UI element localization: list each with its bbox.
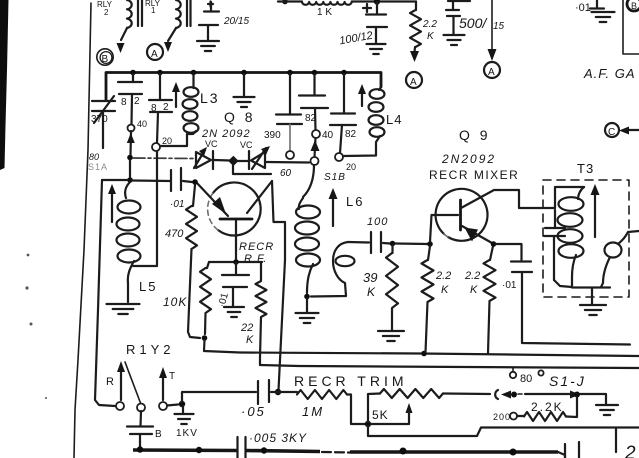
relay RLY2 core [138,0,142,26]
wire B2 to .01 cap [132,179,170,182]
node bus dots [261,447,267,453]
svg-text:20: 20 [346,162,356,172]
wire 390 to contact 60 [289,124,291,150]
L4 tuning arrow [361,92,363,106]
svg-text:80: 80 [520,373,532,385]
scan edge bar left [0,0,9,170]
bus end lead 1 [558,452,565,458]
resistor 2.2K S1J [517,415,524,417]
varactor VC2 [236,160,248,162]
wire diamond to collector node [233,165,271,174]
svg-text:370: 370 [91,114,108,125]
S1A wiper arrow [129,131,132,155]
L3 tuning arrow [175,90,177,107]
S1B wiper arrow [315,138,316,157]
svg-text:2: 2 [163,102,169,113]
svg-text:L6: L6 [346,194,364,209]
T3 bottom wire [572,286,610,288]
inductor L4 [379,87,381,90]
R1Y2 wiper terminal [137,404,145,412]
svg-text:A: A [410,77,417,88]
wire base line [209,261,262,263]
Q8 base bar [220,218,252,221]
wire B+ to node A right [491,0,493,49]
S1B contact 40 [312,130,320,138]
trimmer contact 40 [128,125,135,132]
wire 5K junction down [368,426,639,436]
R1Y2 wiper blade [125,362,141,403]
svg-text:2N2092: 2N2092 [441,152,496,166]
capacitor 20/15 [199,2,219,41]
wire into node C [627,129,639,131]
capacitor .01 Q8 bypass [222,263,249,306]
svg-text:500/: 500/ [459,15,488,31]
node T junction [179,401,185,407]
wire B2 left [102,179,128,181]
supply bus rail [106,73,381,101]
S1B contact 20 [335,153,343,161]
wire S1B wiper to L6 [303,165,314,197]
S1J wiper wire [518,393,524,395]
capacitor .01 Q8 input [171,168,192,191]
wire rail y366 [260,365,639,368]
node A circled right [484,62,500,78]
relay RLY1 coil [176,0,181,28]
svg-text:K: K [246,334,254,346]
ground for 100/12 [367,44,386,54]
wire 39K to base node [395,242,428,245]
svg-text:B: B [155,429,162,440]
svg-text:20/15: 20/15 [223,16,249,27]
ground for 20/15 cap [197,41,219,51]
wire left edge long [74,3,91,458]
paper specks [25,254,47,399]
capacitor .01 Q9 [511,262,532,342]
svg-text:15: 15 [493,21,505,32]
bus ground stem [243,74,245,96]
svg-text:2: 2 [104,8,109,17]
resistor 10K [200,262,211,334]
svg-text:Q 8: Q 8 [224,109,256,125]
capacitor 82 third [299,74,328,130]
ground for .01 AF [592,12,615,22]
svg-text:10K: 10K [163,295,187,309]
wire T to junction [167,405,178,406]
relay RLY1 core [187,0,191,26]
svg-text:60: 60 [280,168,292,179]
L6 tuning arrow [332,196,334,226]
S1J contact 200 [510,413,517,420]
pot 5K RECR TRIM [368,394,380,423]
svg-text:VC: VC [205,139,218,149]
node junction top [282,0,288,4]
capacitor 500/15 [446,1,470,34]
svg-text:2: 2 [624,443,636,458]
varactor VC1 [194,150,213,169]
Q9 base bar [459,200,462,230]
svg-text:22: 22 [240,322,253,334]
svg-text:40: 40 [322,130,334,141]
S1B contact 60 [286,151,294,159]
ground for T3 [580,305,606,315]
node 5K junction [365,421,371,427]
Q8 collector feedback wire [272,181,285,390]
svg-text:39: 39 [363,270,377,285]
inductor 1K choke [278,2,377,5]
wire base node up [430,215,458,242]
svg-text:80: 80 [89,152,99,162]
S1J wiper contact arc [495,390,498,399]
svg-text:82: 82 [345,129,357,140]
node C emitter junction [192,179,198,185]
T junction ground stem [182,406,184,413]
svg-text:2.2K: 2.2K [531,400,564,414]
T3 padder capacitor [544,210,572,287]
svg-text:2.2: 2.2 [435,270,451,282]
Q9 emitter lead [462,226,492,243]
node B circled [97,49,113,65]
svg-text:·01: ·01 [170,199,184,210]
R1Y2 contact R arrow [120,370,122,400]
bottom bus mid [246,451,321,452]
wire 2.2K to dot [566,397,577,417]
wire .05 to 1M [271,391,297,393]
T3 tuning arrow [594,192,596,237]
ground for S1J [596,405,618,415]
svg-text:B: B [631,1,637,11]
svg-text:·05: ·05 [241,404,266,419]
svg-text:RECR: RECR [239,241,274,253]
Q8 base lead [235,220,237,260]
svg-text:R1Y2: R1Y2 [126,342,175,357]
ground for T junction [175,414,194,424]
wire rail y353 [240,353,639,357]
svg-text:R: R [106,376,114,388]
R1Y2 contact R terminal [116,402,124,410]
inductor L3 [192,74,194,88]
Q8 emitter lead [196,182,228,216]
svg-text:L4: L4 [386,112,402,127]
svg-text:·005 3KY: ·005 3KY [249,431,307,445]
capacitor 82 fourth [330,74,356,153]
wire wiper to B2 [129,160,131,177]
circled node top right [627,0,639,11]
node junction cap 100/12 [374,0,380,5]
L5 tuning arrow [111,193,113,222]
svg-text:·01: ·01 [502,280,517,291]
svg-text:20: 20 [162,136,172,146]
resistor 2.2K Q9 emitter [484,246,496,353]
ground for 500/15 [444,35,465,45]
transistor Q9 circle [436,189,488,241]
T3 dashed box [543,180,629,297]
svg-text:1: 1 [151,6,156,15]
node base junction [233,259,239,265]
wire L5 left rail to relay switch [95,180,115,406]
svg-text:40: 40 [137,119,147,129]
node B2 junction [127,177,133,183]
S1J right arrow [570,391,580,399]
wire 1M elbow [347,395,365,425]
capacitor 100/12 electrolytic [363,2,387,43]
series capacitor .005 3KV [238,437,246,458]
node S1A wiper [127,155,133,161]
S1B wiper contact [311,157,319,165]
resistor 470 [186,185,197,249]
wire node D down [204,340,240,353]
node 39K junction [390,241,396,247]
inductor L5 [125,182,130,198]
node rail junction 2.2K [421,351,427,357]
svg-text:1M: 1M [302,404,324,419]
S1A contact 20 [152,143,160,151]
resistor 2.2K feed [410,2,421,48]
svg-text:L3: L3 [200,90,220,106]
transistor Q8 circle [213,182,261,235]
varactor junction diamond [228,156,238,166]
bus end lead 3 [615,429,617,452]
T3 ground stem [591,288,593,304]
capacitor .05 [258,380,269,404]
svg-text:A.F. GA: A.F. GA [583,66,636,81]
AF gain box corner [623,0,639,54]
node A circled [147,44,163,60]
svg-text:K: K [367,285,376,299]
S1J wire to ground [580,394,606,404]
svg-text:A: A [488,67,495,78]
relay RLY2 coil [127,0,132,28]
label 100/12 [338,30,373,48]
T3 primary rail [555,187,584,208]
wire emitter to .01 [496,244,522,260]
S1J wiper arrow [501,391,511,399]
wire .01 to right [522,341,630,345]
svg-text:Q 9: Q 9 [459,127,491,143]
wire arrow to node A mid [413,47,416,52]
node L6 ground junction [304,294,310,300]
wire VC1 to junction [214,159,230,162]
svg-text:200: 200 [493,412,511,422]
svg-text:82: 82 [305,113,317,124]
capacitor 82 second [149,74,172,143]
bus ground symbol [234,97,255,107]
ground for L6 [296,313,319,323]
node .05 junction [275,389,281,395]
svg-text:S1B: S1B [324,172,346,183]
svg-text:K: K [470,284,478,296]
Q8 collector lead [247,181,272,213]
svg-text:VC: VC [240,140,253,150]
svg-text:R.F.: R.F. [244,253,267,265]
wire RLY2 to node B [121,28,127,40]
L6 secondary loop [311,242,348,297]
inductor L6 [295,206,320,267]
svg-text:RECR TRIM: RECR TRIM [294,373,408,389]
R1Y2 contact T arrow [162,378,164,400]
L6 ground stem [306,298,308,312]
capacitor B 1KV [127,411,153,448]
svg-text:470: 470 [165,228,184,240]
wire VC2 to S1B wiper [266,161,309,164]
wire contact20 to L4 [343,150,376,156]
T3 primary coil [558,197,584,258]
Q9 collector lead [461,190,555,208]
ground for 39K [378,331,404,341]
svg-text:S1-J: S1-J [549,373,586,389]
resistor 22K [256,263,267,365]
svg-text:S1A: S1A [88,162,108,172]
wire S1A to varactors [133,157,194,160]
pot 5K wiper [406,403,413,413]
svg-text:100: 100 [367,216,388,228]
ground for .01 bypass [224,307,244,317]
wire contact20 to L3 [160,134,192,146]
node Q9 base junction [427,241,433,247]
svg-text:1 K: 1 K [317,7,332,18]
svg-text:T3: T3 [577,161,594,176]
svg-text:T: T [169,371,175,382]
wire secondary to cap100 [348,241,369,244]
svg-text:K: K [441,284,449,296]
svg-text:·01: ·01 [575,2,591,14]
wire top rail to 2.2K [380,0,416,2]
wire T junction up [182,392,256,402]
bus junction dots [130,70,136,76]
wire RLY1 to node A [168,28,176,41]
capacitor 370 variable [92,96,115,148]
svg-text:K: K [427,31,435,42]
node C circled [605,123,619,137]
capacitor 100 [371,232,390,253]
resistor 2.2K Q9 base [422,246,434,352]
node Q9 emitter junction [491,241,497,247]
wire 470 to node D [188,249,200,338]
svg-text:2.2: 2.2 [464,270,480,282]
svg-text:390: 390 [264,130,281,141]
S1J contact 80 [510,372,516,378]
svg-text:5K: 5K [372,408,389,422]
capacitor 390 [276,74,302,124]
L5 tap wire [133,151,157,266]
T3 secondary loop [605,243,622,258]
svg-text:C: C [608,127,615,138]
bottom bus left [133,448,237,452]
R1Y2 contact T terminal [159,402,167,410]
svg-text:A: A [151,49,158,60]
svg-text:2.2: 2.2 [422,19,437,30]
svg-text:8: 8 [151,103,157,114]
svg-text:2: 2 [134,96,140,107]
svg-text:RECR MIXER: RECR MIXER [429,168,519,182]
node D junction [202,335,208,341]
bus end lead 2 [578,442,580,458]
svg-text:1KV: 1KV [176,428,198,439]
resistor 39K [386,245,398,330]
label .01 bypass [217,291,231,308]
resistor 1M [297,390,347,399]
node A circled mid [406,72,422,88]
svg-text:8: 8 [121,97,127,108]
capacitor 82 first [118,74,142,124]
node bus B cap [137,446,143,452]
svg-text:L5: L5 [139,279,157,294]
ground for L5 [107,304,140,314]
svg-text:B: B [102,54,109,65]
